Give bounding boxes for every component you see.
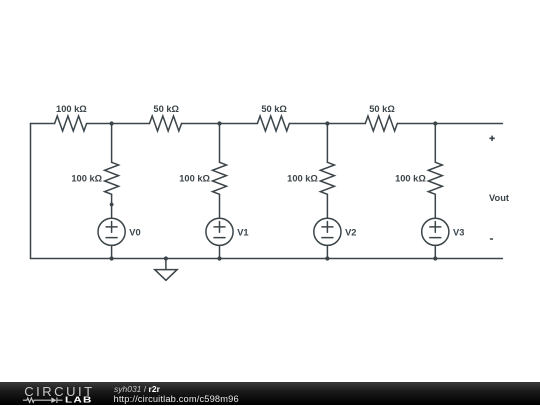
svg-text:V1: V1 bbox=[237, 228, 248, 238]
svg-text:100 kΩ: 100 kΩ bbox=[179, 173, 210, 183]
svg-text:V0: V0 bbox=[129, 228, 140, 238]
svg-text:V3: V3 bbox=[453, 228, 464, 238]
svg-text:V2: V2 bbox=[345, 228, 356, 238]
svg-text:100 kΩ: 100 kΩ bbox=[71, 173, 102, 183]
svg-text:100 kΩ: 100 kΩ bbox=[395, 173, 426, 183]
svg-text:100 kΩ: 100 kΩ bbox=[56, 104, 87, 114]
svg-text:LAB: LAB bbox=[65, 396, 93, 405]
svg-text:Vout: Vout bbox=[489, 193, 509, 203]
svg-text:100 kΩ: 100 kΩ bbox=[287, 173, 318, 183]
svg-text:50 kΩ: 50 kΩ bbox=[369, 104, 395, 114]
svg-text:50 kΩ: 50 kΩ bbox=[153, 104, 179, 114]
svg-text:50 kΩ: 50 kΩ bbox=[261, 104, 287, 114]
